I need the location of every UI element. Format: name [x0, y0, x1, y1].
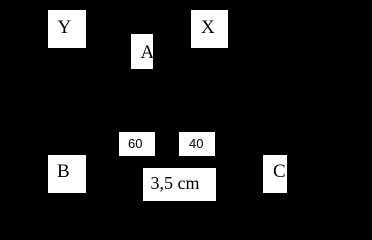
node B label box: [48, 155, 86, 193]
node C label box: [263, 155, 287, 193]
angle 40 label box: [179, 132, 215, 156]
node A label box: [131, 34, 153, 69]
angle 60 label box: [119, 132, 155, 156]
node X label box: [191, 10, 228, 48]
length 3,5 cm label box: [143, 168, 216, 201]
node Y label box: [48, 10, 86, 48]
